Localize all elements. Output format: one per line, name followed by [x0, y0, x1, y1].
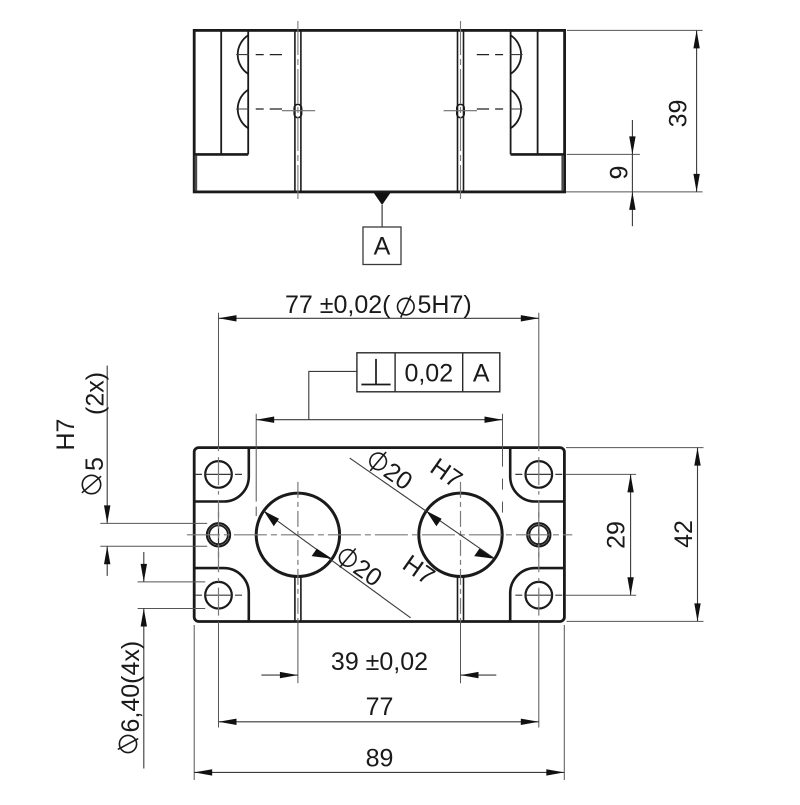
- side hole right outer: [527, 523, 550, 546]
- pad boundary bottom-right: [510, 568, 564, 621]
- svg-text:77: 77: [366, 693, 394, 721]
- FCF boundary dimension line: [256, 419, 502, 421]
- left edge gray band below step: [195, 156, 198, 191]
- dimension 39 ±0,02 line: [261, 674, 298, 676]
- svg-text:39: 39: [665, 100, 693, 128]
- Ø6,40(4x) text (rotated): [117, 641, 145, 753]
- bore left circle: [256, 493, 339, 576]
- 89 dim extension lines: [193, 625, 195, 780]
- svg-text:42: 42: [670, 520, 698, 548]
- dimension 39 line: [696, 30, 698, 192]
- FCF leader: [309, 371, 357, 419]
- left lower counterbore arc: [238, 90, 248, 129]
- left upper counterbore arc: [238, 35, 248, 74]
- dimension 77 +-0,02 (Ø5H7) line: [219, 317, 539, 319]
- corner hole bottom-right: [526, 582, 553, 609]
- dimension 42 line: [697, 448, 699, 622]
- left step line: [194, 153, 248, 156]
- crosshair corner hole bottom-left: [195, 594, 242, 596]
- corner holes vertical centerline right: [538, 448, 540, 622]
- Ø6,40 extension lines: [138, 581, 206, 583]
- right slot lines (front): [458, 30, 464, 192]
- left slot lines (front): [295, 30, 301, 192]
- bore left slot (top view): [295, 576, 301, 621]
- svg-text:A: A: [374, 233, 391, 261]
- extension line step (9 dim): [567, 153, 640, 155]
- bore right diametral dimension line: [350, 458, 495, 559]
- pad boundary top-right: [510, 448, 564, 502]
- FCF dim extension line right (dashed into view): [502, 414, 504, 448]
- right upper counterbore arc: [511, 35, 521, 74]
- top view outline: [194, 448, 564, 622]
- svg-text:89: 89: [366, 745, 394, 773]
- right arc centerline ticks: [510, 55, 523, 109]
- diameter symbol in 77 dim text: [398, 296, 415, 318]
- svg-text:29: 29: [603, 521, 631, 549]
- right bore-wall vertical line: [510, 30, 512, 154]
- dimension 29 line: [630, 474, 632, 595]
- bore left Ø20 label: [332, 542, 387, 592]
- left hidden hole dashes lower: [249, 108, 282, 110]
- corner hole top-left: [205, 461, 232, 488]
- left bore-wall vertical line: [247, 30, 249, 154]
- svg-text:A: A: [473, 360, 490, 388]
- extension line top (39 dim): [567, 29, 703, 31]
- datum A stem: [381, 205, 383, 227]
- corner holes vertical centerline left: [218, 448, 220, 622]
- svg-text:H7: H7: [52, 419, 80, 451]
- FCF frame: [357, 353, 500, 392]
- Ø6,40 dimension line + arrows: [143, 552, 145, 769]
- FCF dim extension line left (dashed into view): [255, 414, 257, 448]
- right slot horizontal centerline: [444, 110, 477, 112]
- left slot vertical centerline (front): [297, 21, 299, 200]
- right slot screw-hole ring: [457, 104, 464, 117]
- perpendicularity symbol: [361, 359, 390, 385]
- left arc centerline ticks: [236, 55, 249, 109]
- dimension 39 arrows: [693, 30, 699, 48]
- svg-text:77 ±0,02(: 77 ±0,02(: [285, 291, 391, 319]
- side hole left outer: [207, 523, 230, 546]
- extension line bottom (39 dim): [566, 191, 703, 193]
- right slot vertical centerline (front): [460, 21, 462, 200]
- crosshair corner hole bottom-right + 29 extension: [515, 594, 562, 596]
- right hidden hole dashes lower: [477, 108, 510, 110]
- svg-text:(2x): (2x): [82, 372, 110, 415]
- corner hole bottom-left: [205, 582, 232, 609]
- svg-text:6,40(4x): 6,40(4x): [117, 641, 145, 733]
- dimension 9 arrows: [629, 136, 635, 154]
- 77 bottom dim extension lines: [218, 622, 220, 728]
- svg-text:5H7): 5H7): [418, 291, 472, 319]
- dimension 77 bottom line: [219, 721, 539, 723]
- 42 dim extension lines: [566, 447, 704, 449]
- Ø5 text (rotated): [81, 457, 109, 494]
- pad boundary top-left: [194, 448, 249, 502]
- dimension 89 line: [194, 771, 564, 773]
- svg-text:5: 5: [81, 457, 109, 471]
- left slot screw-hole ring: [294, 104, 301, 117]
- bore right slot (top view): [458, 576, 464, 621]
- datum A box: [363, 227, 401, 265]
- right hidden hole dashes upper: [477, 54, 510, 56]
- svg-text:9: 9: [606, 166, 634, 180]
- pad boundary bottom-left: [194, 568, 249, 621]
- left slot horizontal centerline: [282, 110, 315, 112]
- right lower counterbore arc: [511, 90, 521, 129]
- bore left diametral dimension line: [264, 511, 411, 618]
- Ø5 extension lines: [100, 522, 207, 524]
- right step line: [511, 153, 565, 156]
- side hole left inner: [209, 525, 228, 544]
- Ø5 dimension line + arrows: [106, 366, 108, 576]
- corner hole top-right: [526, 461, 553, 488]
- crosshair side hole right vertical: [538, 512, 540, 557]
- crosshair side hole left vertical: [218, 512, 220, 557]
- bore right circle: [419, 493, 502, 576]
- front view outline: [194, 30, 564, 192]
- bore left vertical centerline: [297, 482, 299, 622]
- crosshair corner hole top-left: [195, 473, 242, 475]
- right inner vertical line: [537, 30, 539, 154]
- bore right vertical centerline: [460, 482, 462, 622]
- crosshair corner hole top-right + 29 extension: [515, 473, 562, 475]
- left hidden hole dashes upper: [249, 54, 282, 56]
- datum A triangle: [374, 193, 391, 206]
- 77 top dim extension lines: [218, 313, 220, 448]
- main horizontal centerline: [187, 534, 572, 536]
- bore right Ø20 label: [363, 446, 418, 496]
- right edge gray band below step: [561, 156, 564, 191]
- svg-text:39 ±0,02: 39 ±0,02: [331, 648, 428, 676]
- side hole right inner: [529, 525, 548, 544]
- svg-text:0,02: 0,02: [404, 360, 453, 388]
- 39 bottom dim extension lines (bore centerlines): [297, 622, 299, 684]
- left inner vertical line: [220, 30, 222, 154]
- dimension 9 line: [631, 120, 633, 226]
